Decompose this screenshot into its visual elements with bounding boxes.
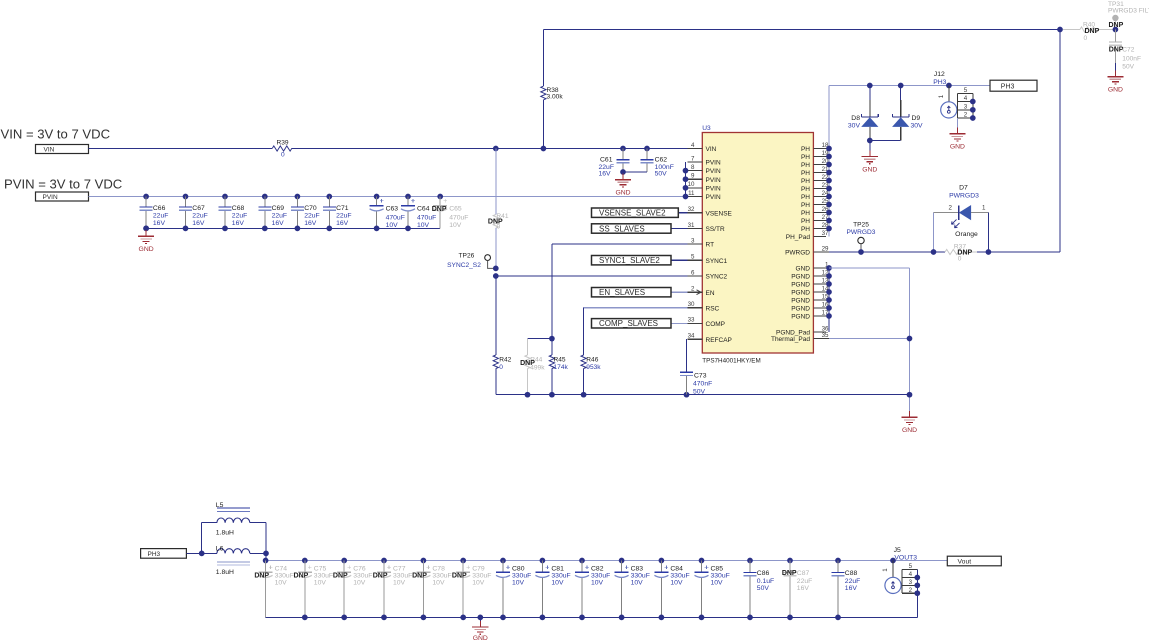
ground J12 shield [956,118,958,128]
svg-text:22uF: 22uF [232,213,248,220]
svg-text:22uF: 22uF [153,213,169,220]
capacitor C78 DNP [421,558,427,564]
svg-text:C75: C75 [314,565,327,572]
svg-text:DNP: DNP [1109,22,1124,29]
svg-text:PH: PH [801,210,810,217]
svg-text:C79: C79 [472,565,485,572]
junction L5/L6 input [199,551,205,557]
wire analog ground rail [496,394,910,396]
zener diode D9 [900,86,902,101]
resistor R41 DNP [495,149,497,215]
capacitor C84 [659,558,665,564]
svg-text:SYNC1: SYNC1 [706,258,728,265]
svg-text:C74: C74 [275,565,288,572]
capacitor C61 [622,149,624,159]
svg-text:0: 0 [499,364,503,371]
svg-text:5: 5 [964,87,968,94]
U3 GND pin bus [828,268,830,332]
svg-text:2: 2 [909,587,913,594]
net label PH3 bottom [141,549,187,559]
svg-text:C77: C77 [393,565,406,572]
svg-text:PWRGD3 FILT: PWRGD3 FILT [1108,8,1149,15]
svg-text:PVIN: PVIN [706,168,721,175]
capacitor C64 [405,194,411,200]
svg-text:L5: L5 [216,502,224,509]
svg-text:R42: R42 [499,356,511,363]
svg-text:C84: C84 [670,565,683,572]
svg-text:3: 3 [691,237,695,244]
svg-text:SYNC2_S2: SYNC2_S2 [447,262,481,269]
svg-text:174k: 174k [554,364,569,371]
wire SYNC2 [496,275,688,277]
net label VSENSE_SLAVE2 [678,212,687,214]
svg-text:COMP: COMP [706,321,726,328]
U3 left pin stubs and names [688,142,733,344]
svg-text:Vout: Vout [958,559,972,566]
ground output capacitor bank [477,615,483,621]
wire J5 shield to ground rail [916,569,918,617]
svg-text:U3: U3 [702,125,711,132]
svg-text:C63: C63 [386,205,399,212]
svg-text:DNP: DNP [254,573,269,580]
junction PH-J12 [946,83,952,89]
junction PH-D9 [898,83,904,89]
svg-text:10V: 10V [432,579,445,586]
capacitor C67 [183,194,189,200]
wire PVIN rail [89,196,686,198]
junction L5/L6 output [263,551,269,557]
svg-text:GND: GND [473,635,488,640]
svg-text:C70: C70 [304,205,317,212]
svg-text:SYNC2: SYNC2 [706,274,728,281]
junction D7 cathode leg [931,249,937,255]
svg-text:35: 35 [822,332,829,339]
svg-text:VIN: VIN [44,146,55,153]
junction D8 anode [867,138,873,144]
svg-text:6: 6 [691,269,695,276]
ground C61 C62 [620,169,626,175]
svg-text:16V: 16V [304,220,317,227]
net label EN_SLAVES [671,291,688,293]
wire RSC [584,307,688,309]
svg-text:16V: 16V [845,585,858,592]
svg-text:PH: PH [801,146,810,153]
svg-text:DNP: DNP [412,573,427,580]
svg-text:PVIN: PVIN [706,160,721,167]
U3 Thermal_Pad pin [813,338,829,340]
wire input capacitor ground rail [146,227,440,229]
capacitor C73 [686,339,688,371]
svg-text:30V: 30V [848,122,861,129]
svg-text:DNP: DNP [432,206,447,213]
svg-text:953k: 953k [586,364,601,371]
svg-text:7: 7 [691,155,695,162]
wire Thermal_Pad to ground [829,338,910,340]
svg-text:TP25: TP25 [853,221,869,228]
svg-text:22uF: 22uF [797,578,813,585]
svg-text:31: 31 [688,222,695,229]
svg-text:C76: C76 [353,565,366,572]
junction analog rail to ground [907,392,913,398]
svg-text:PH_Pad: PH_Pad [786,234,811,241]
svg-text:0: 0 [958,256,962,263]
svg-text:C83: C83 [631,565,644,572]
svg-text:SS_SLAVES: SS_SLAVES [599,224,645,233]
capacitor C81 [540,558,546,564]
svg-text:C64: C64 [417,205,430,212]
svg-text:COMP_SLAVES: COMP_SLAVES [599,319,658,328]
svg-text:RT: RT [706,242,715,249]
svg-text:30V: 30V [911,122,924,129]
svg-text:PH: PH [801,186,810,193]
svg-text:R45: R45 [554,356,566,363]
svg-text:3: 3 [964,103,968,110]
svg-text:PWRGD3: PWRGD3 [847,229,876,236]
test point TP31 DNP [1112,15,1118,21]
net label COMP_SLAVES [671,322,688,324]
capacitor C70 [295,194,301,200]
net label SYNC1_SLAVE2 [671,259,688,261]
junction J12 pin4 [970,99,976,105]
svg-text:1.8uH: 1.8uH [216,530,234,537]
svg-text:DNP: DNP [373,573,388,580]
junction TP25 [858,249,864,255]
svg-text:470uF: 470uF [386,214,405,221]
svg-text:GND: GND [796,266,811,273]
svg-text:PH: PH [801,218,810,225]
svg-text:C81: C81 [551,565,564,572]
capacitor C65 DNP [437,194,443,200]
net label VIN [36,145,89,154]
svg-text:4: 4 [909,571,913,578]
junction J12 pin2 [970,115,976,121]
resistor R44 DNP [528,338,552,340]
capacitor C68 [222,194,228,200]
svg-text:29: 29 [822,245,829,252]
junction top right [1057,27,1063,33]
svg-text:C78: C78 [432,565,445,572]
svg-text:TP26: TP26 [459,252,475,259]
svg-text:R39: R39 [277,140,289,147]
svg-text:VOUT3: VOUT3 [894,555,917,562]
capacitor C83 [619,558,625,564]
svg-text:GND: GND [1108,87,1123,94]
svg-text:PVIN: PVIN [706,194,721,201]
svg-text:C80: C80 [512,565,525,572]
svg-text:PGND: PGND [791,314,810,321]
capacitor C86 [747,558,753,564]
net label PVIN [36,192,89,201]
svg-text:R46: R46 [586,356,598,363]
svg-text:PH: PH [801,154,810,161]
capacitor C88 [835,558,841,564]
svg-text:PH3: PH3 [148,551,161,558]
wire GND bus to ground [829,267,910,269]
junction VIN-R38 [541,146,547,152]
svg-text:34: 34 [688,333,695,340]
svg-text:100nF: 100nF [1122,55,1141,62]
svg-text:C82: C82 [591,565,604,572]
test point TP25 PWRGD3 [858,237,864,243]
svg-text:PH: PH [801,194,810,201]
net label PH3 top [990,80,1037,91]
ground input capacitor bank [143,226,149,232]
svg-text:D9: D9 [912,115,921,122]
svg-text:PGND: PGND [791,298,810,305]
svg-text:16V: 16V [272,220,285,227]
capacitor C63 [374,194,380,200]
svg-text:1: 1 [982,204,986,211]
svg-text:470uF: 470uF [449,214,468,221]
wire Vout rail [266,560,948,562]
svg-text:50V: 50V [655,171,668,178]
svg-text:11: 11 [688,190,695,197]
junction J5 pin2 [914,590,920,596]
capacitor C74 DNP [263,558,269,564]
svg-text:10V: 10V [472,579,485,586]
svg-text:J5: J5 [894,547,901,554]
svg-text:5: 5 [909,563,913,570]
svg-text:C61: C61 [600,156,613,163]
svg-text:C72: C72 [1122,46,1134,53]
svg-text:22uF: 22uF [845,578,861,585]
ground C72 [1114,63,1116,71]
svg-text:TPS7H4001HKY/EM: TPS7H4001HKY/EM [702,357,760,364]
svg-text:22uF: 22uF [336,213,352,220]
svg-text:PVIN: PVIN [43,194,58,201]
svg-text:1.8uH: 1.8uH [216,569,234,576]
svg-text:C88: C88 [845,570,858,577]
svg-text:DNP: DNP [294,573,309,580]
svg-text:PWRGD: PWRGD [785,250,810,257]
svg-text:C67: C67 [192,205,205,212]
wire PH feedback top [543,29,1060,31]
svg-text:VSENSE_SLAVE2: VSENSE_SLAVE2 [599,209,666,218]
svg-text:2: 2 [949,204,953,211]
svg-text:C87: C87 [797,570,810,577]
junction VIN-C61 [620,146,626,152]
svg-text:PH: PH [801,178,810,185]
svg-text:50V: 50V [693,388,706,395]
U3 PH bus [828,86,830,237]
svg-text:SS/TR: SS/TR [706,226,725,233]
wire C61-C62 ground [623,171,647,173]
svg-text:16V: 16V [232,220,245,227]
svg-text:32: 32 [688,206,695,213]
svg-text:4: 4 [691,142,695,149]
svg-text:0: 0 [497,224,501,231]
svg-text:GND: GND [950,144,965,151]
svg-text:VIN = 3V to 7 VDC: VIN = 3V to 7 VDC [1,127,111,142]
svg-text:PH: PH [801,202,810,209]
svg-text:PVIN: PVIN [706,177,721,184]
svg-text:PVIN = 3V to 7 VDC: PVIN = 3V to 7 VDC [4,177,122,192]
junction PWRGD3 FILT node [1113,27,1119,33]
capacitor C87 DNP [787,558,793,564]
capacitor C75 DNP [302,558,308,564]
svg-text:470uF: 470uF [417,214,436,221]
zener diode D8 [869,86,871,101]
svg-text:GND: GND [902,427,917,434]
svg-text:10V: 10V [670,579,683,586]
svg-text:4: 4 [964,95,968,102]
U3 EN pin input arrow [697,290,702,295]
svg-text:C66: C66 [153,205,166,212]
svg-text:GND: GND [139,246,154,253]
svg-text:0: 0 [281,151,285,158]
resistor R39 [272,146,292,151]
svg-text:0: 0 [1084,35,1088,42]
svg-text:50V: 50V [757,585,770,592]
svg-text:PH: PH [801,170,810,177]
svg-text:C86: C86 [757,570,770,577]
capacitor C77 DNP [381,558,387,564]
wire PWRGD [829,251,945,253]
svg-text:22uF: 22uF [304,213,320,220]
svg-text:50V: 50V [1122,63,1134,70]
svg-text:DNP: DNP [452,573,467,580]
svg-text:16V: 16V [797,585,810,592]
svg-text:22uF: 22uF [192,213,208,220]
svg-text:PGND: PGND [791,290,810,297]
svg-text:Orange: Orange [955,231,978,238]
junction TP26 [493,266,499,272]
svg-text:470nF: 470nF [693,380,712,387]
U3 right PH pin stubs [786,142,829,241]
junction PH-D8 [867,83,873,89]
svg-text:C62: C62 [655,156,668,163]
svg-text:1: 1 [938,94,945,98]
U3 PVIN pin bus [685,162,687,197]
svg-text:RSC: RSC [706,305,720,312]
svg-text:D7: D7 [959,185,968,192]
svg-text:DNP: DNP [782,570,797,577]
svg-text:PH3: PH3 [933,79,946,86]
svg-text:8: 8 [691,164,695,171]
svg-text:Thermal_Pad: Thermal_Pad [771,336,810,343]
svg-text:3.00k: 3.00k [547,94,564,101]
resistor R45 [551,339,553,355]
inductor L6 [217,549,250,554]
svg-text:VSENSE: VSENSE [706,210,733,217]
junction RT divider [549,336,555,342]
resistor R40 DNP [1063,29,1080,31]
svg-text:9: 9 [691,173,695,180]
svg-text:EN: EN [706,290,715,297]
svg-text:PGND: PGND [791,282,810,289]
net label SS_SLAVES [671,228,688,230]
capacitor C72 DNP [1114,30,1116,42]
svg-text:10V: 10V [353,579,366,586]
U3 PWRGD pin [813,251,829,253]
svg-text:10V: 10V [314,579,327,586]
resistor R46 [581,355,586,369]
capacitor C71 [326,194,332,200]
junction VIN-R41 [493,146,499,152]
capacitor C76 DNP [341,558,347,564]
IC U3 TPS7H4001HKY/EM body [702,133,813,354]
svg-text:PWRGD3: PWRGD3 [949,192,979,199]
wire RT [552,243,688,245]
svg-text:10: 10 [688,181,695,188]
svg-text:L6: L6 [216,545,224,552]
svg-text:5: 5 [691,254,695,261]
svg-text:PH: PH [801,162,810,169]
svg-text:C73: C73 [694,372,707,379]
svg-text:PGND: PGND [791,306,810,313]
test point TP26 SYNC2_S2 [485,255,491,261]
svg-text:REFCAP: REFCAP [706,337,732,344]
svg-text:16V: 16V [192,220,205,227]
svg-text:10V: 10V [449,222,462,229]
junction Vout-J5 [890,558,896,564]
U3 right GND/PGND pin stubs [776,261,829,336]
svg-text:DNP: DNP [1085,28,1100,35]
svg-text:D8: D8 [851,115,860,122]
svg-text:10V: 10V [275,579,288,586]
svg-text:PVIN: PVIN [706,185,721,192]
svg-text:0.1uF: 0.1uF [757,578,774,585]
junction J12 pin3 [970,107,976,113]
svg-text:DNP: DNP [333,573,348,580]
svg-text:10V: 10V [711,579,724,586]
svg-text:22uF: 22uF [272,213,288,220]
svg-text:10V: 10V [512,579,525,586]
capacitor C66 [143,194,149,200]
svg-text:499k: 499k [530,364,545,371]
wire D8-D9 anodes [870,140,901,142]
capacitor C79 DNP [460,558,466,564]
svg-text:C71: C71 [336,205,349,212]
resistor R37 DNP [945,249,965,254]
svg-text:16V: 16V [599,171,612,178]
capacitor C80 [500,558,506,564]
resistor R42 [495,276,497,355]
ground D8 D9 [869,141,871,151]
capacitor C69 [262,194,268,200]
junction SYNC2 [493,273,499,279]
capacitor C62 [646,149,648,159]
inductor L5 [201,523,203,554]
capacitor C82 [579,558,585,564]
svg-text:PH3: PH3 [1001,84,1015,91]
svg-text:16V: 16V [153,220,166,227]
wire PH to snubber and J12 [829,85,990,87]
wire VIN rail [89,148,273,150]
wire PWRGD to top right [1059,30,1061,253]
junction J5 pin4 [914,575,920,581]
junction D7 anode leg [986,249,992,255]
svg-text:10V: 10V [631,579,644,586]
svg-text:PH: PH [801,226,810,233]
svg-text:GND: GND [862,167,877,174]
junction thermal pad [907,336,913,342]
svg-text:VIN: VIN [706,146,717,153]
svg-text:2: 2 [964,112,968,119]
junction VIN-C62 [644,146,650,152]
svg-text:C85: C85 [711,565,724,572]
wire output ground rail [266,616,918,618]
svg-text:2: 2 [691,286,695,293]
svg-text:30: 30 [688,301,695,308]
resistor R38 [542,30,544,87]
svg-text:16V: 16V [336,220,349,227]
svg-text:10V: 10V [551,579,564,586]
svg-text:33: 33 [688,317,695,324]
svg-text:GND: GND [615,190,630,197]
svg-text:DNP: DNP [488,219,503,226]
svg-text:10V: 10V [393,579,406,586]
